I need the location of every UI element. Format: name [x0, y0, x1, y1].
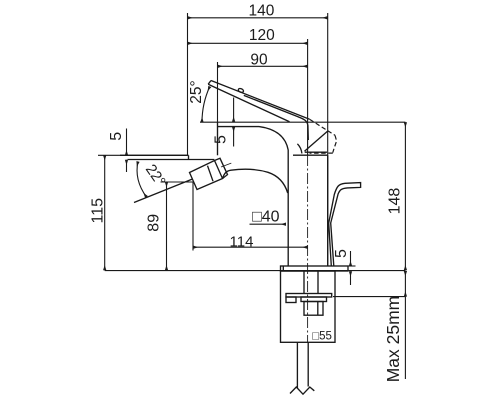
spout end dashed top — [310, 119, 335, 135]
dim 148 line — [404, 122, 406, 270]
svg-text:5: 5 — [333, 249, 350, 258]
spout bottom edge — [208, 84, 289, 122]
threaded rod left — [303, 271, 305, 294]
break zigzag — [290, 387, 314, 394]
svg-text:114: 114 — [230, 233, 254, 250]
mounting box — [281, 271, 336, 342]
shank block divider — [317, 302, 319, 316]
flange — [281, 266, 349, 271]
dim 114 line — [193, 246, 308, 248]
extension line y=122.2 deck — [200, 121, 405, 123]
nut bar — [301, 297, 327, 302]
dim 120 line — [188, 42, 308, 44]
dim 5 right upper arrow — [350, 251, 352, 266]
extension line x=307.5 — [307, 39, 309, 155]
neck top line — [293, 154, 328, 156]
pop-up rod lever — [329, 183, 361, 266]
centerline column — [307, 155, 309, 342]
hose right — [307, 342, 309, 386]
spout inner line — [244, 95, 308, 140]
extension line y=155.3 left — [98, 154, 189, 156]
washer plate — [286, 294, 332, 298]
arc 22 deg — [137, 162, 146, 198]
step bottom line — [128, 159, 215, 161]
step drop — [188, 155, 190, 159]
body dome curve — [223, 169, 288, 193]
svg-text:120: 120 — [249, 27, 275, 44]
arc 25 deg — [202, 87, 210, 123]
step top — [120, 154, 189, 156]
column right face — [327, 155, 329, 266]
dim 5 left upper arrow — [126, 129, 128, 156]
svg-text:140: 140 — [248, 3, 274, 20]
extension line y=296.6 washer — [333, 296, 405, 298]
threaded rod right — [317, 271, 319, 294]
extension line x=193 handle tip down — [192, 183, 194, 251]
handle knob — [190, 161, 223, 190]
dim 115 line — [104, 155, 106, 270]
svg-text:25°: 25° — [188, 80, 205, 103]
svg-text:Max 25mm: Max 25mm — [383, 296, 403, 383]
extension line y=266 flange top right — [348, 265, 356, 267]
dim Max25 tail — [404, 297, 406, 379]
shank block — [304, 302, 323, 316]
clamp block — [286, 297, 296, 303]
svg-text:89: 89 — [146, 214, 163, 232]
dim 5 right lower arrow — [350, 271, 352, 285]
dim 5 left lower arrow — [126, 160, 128, 172]
dim 5 middle upper arrow — [233, 98, 235, 122]
handle axis line — [134, 179, 193, 203]
spout end solid diagonal — [305, 131, 328, 151]
spout tip edge — [208, 81, 211, 85]
spout top hook detail — [238, 88, 244, 93]
spout top edge — [211, 81, 310, 120]
svg-text:5: 5 — [108, 132, 125, 141]
extension line x=327.5 top — [327, 13, 329, 266]
knob collar — [215, 158, 228, 178]
leader square40 — [250, 223, 287, 225]
svg-text:5: 5 — [213, 135, 230, 144]
dim 5 middle lower arrow — [233, 127, 235, 147]
spout end bottom solid — [305, 151, 327, 153]
extension line y=270.6 countertop — [105, 270, 406, 272]
svg-text:□40: □40 — [252, 209, 280, 226]
spout end dashed bottom — [310, 152, 333, 154]
hose left — [296, 342, 298, 388]
extension line x=187.5 — [187, 13, 189, 155]
extension line y=182 (handle tip) — [161, 181, 194, 183]
deck lower edge and corner to column — [218, 127, 289, 266]
handle axis dashdot — [221, 162, 234, 167]
body left face — [217, 122, 219, 156]
dim 140 line — [188, 17, 328, 19]
svg-text:148: 148 — [387, 188, 404, 215]
svg-text:115: 115 — [90, 198, 107, 224]
flange inner tick — [282, 266, 284, 271]
svg-text:□55: □55 — [312, 331, 332, 343]
spout end lower-left fragment — [297, 144, 302, 154]
knob division — [208, 166, 214, 182]
dim 89 line — [166, 182, 168, 270]
svg-text:90: 90 — [250, 52, 268, 69]
extension line x=217.5 — [217, 62, 219, 122]
dim Max25 line — [404, 271, 406, 297]
spout end dashed right — [333, 135, 337, 152]
dim 90 line — [218, 65, 308, 67]
